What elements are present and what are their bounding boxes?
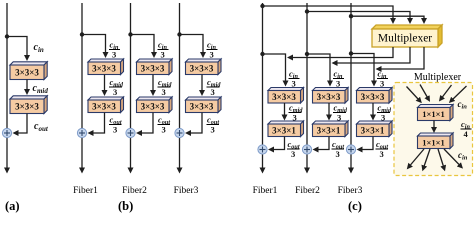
wire: mux detail conv1 to conv2 (433, 121, 435, 129)
wire: conv2 to add node (a) (18, 114, 28, 134)
wire: mux detail input arrow 3 (442, 85, 452, 98)
wire: mux detail input arrow 1 (407, 87, 419, 100)
svg-text:3: 3 (162, 87, 166, 97)
wire: fiber2 to multiplexer input (c) (307, 12, 410, 20)
wire: multiplexer output to fiber1 conv input (c) (292, 47, 393, 58)
svg-text:cout: cout (34, 121, 49, 133)
svg-text:3×3×3: 3×3×3 (15, 102, 39, 112)
label Fiber1 (c) (253, 186, 278, 196)
label c_out (a) (34, 121, 49, 133)
svg-text:(c): (c) (348, 199, 362, 213)
label Multiplexer detail title (414, 72, 462, 83)
label c_out/3 fiber2 (b) (158, 115, 171, 135)
conv box 3x3x3 C2-1 (313, 88, 349, 104)
label c_mid/3 fiber3 (b) (207, 77, 222, 97)
wire: fiber1 main line (b) (81, 3, 83, 169)
svg-text:3: 3 (291, 149, 295, 159)
label c_in/4 mux detail (461, 119, 472, 139)
wire: conv2 to add node fiber3 (c) (362, 137, 374, 150)
svg-text:cin: cin (34, 42, 44, 54)
conv box 3x3x3 B3-1 (186, 59, 222, 75)
wire: mux detail output arrow 4 (444, 149, 460, 165)
conv box 3x3x3 A1 (10, 62, 47, 80)
svg-text:Fiber2: Fiber2 (122, 186, 147, 196)
svg-text:Multiplexer: Multiplexer (414, 72, 462, 83)
wire: conv1 to conv2 fiber3 (c) (372, 103, 374, 116)
svg-text:Fiber2: Fiber2 (295, 186, 320, 196)
wire: branch to conv1 fiber2 (b) (131, 35, 155, 54)
svg-text:3×3×3: 3×3×3 (141, 64, 165, 74)
multiplexer detail dashed box (394, 83, 473, 176)
conv box 3x3x3 B3-2 (186, 97, 222, 113)
svg-text:3×3×3: 3×3×3 (190, 64, 214, 74)
wire: conv1 to conv2 fiber1 (b) (104, 75, 106, 92)
label c_mid/3 fiber2 (c) (333, 103, 348, 123)
label c_mid (a) (33, 83, 49, 95)
label (b) (118, 199, 133, 213)
label Fiber2 (b) (122, 186, 147, 196)
node: mux tap fiber3 (c) (349, 14, 353, 18)
add node + fiber1 (b) (77, 128, 86, 137)
wire: branch to conv1 fiber3 (b) (180, 35, 204, 54)
conv box 3x3x3 C1-1 (268, 88, 304, 104)
add node + fiber3 (b) (175, 128, 184, 137)
conv box 3x3x3 A2 (10, 96, 47, 114)
conv box 3x3x1 C3-2 (357, 121, 393, 137)
conv box 3x3x3 B2-1 (137, 59, 173, 75)
node: mux tap fiber1 (c) (260, 4, 264, 8)
wire: conv2 to add node fiber2 (c) (318, 137, 330, 150)
svg-text:3: 3 (161, 50, 165, 60)
conv box 3x3x3 C3-1 (357, 88, 393, 104)
svg-text:1×1×1: 1×1×1 (422, 109, 444, 119)
svg-text:Fiber1: Fiber1 (253, 186, 278, 196)
wire: mux detail input arrow 4 (453, 86, 467, 100)
svg-text:1×1×1: 1×1×1 (422, 138, 444, 148)
wire: conv2 to add node fiber2 (b) (141, 113, 153, 134)
conv box 3x3x3 B2-2 (137, 97, 173, 113)
svg-text:3×3×1: 3×3×1 (361, 126, 385, 136)
add node + fiber2 (b) (126, 128, 135, 137)
wire: conv2 to add node fiber1 (c) (273, 137, 285, 150)
svg-text:3×3×3: 3×3×3 (141, 102, 165, 112)
label c_mid/3 fiber3 (c) (377, 103, 392, 123)
label c_out/3 fiber1 (c) (287, 139, 300, 159)
label c_out/3 fiber3 (c) (376, 139, 389, 159)
label c_mid/3 fiber1 (c) (289, 103, 304, 123)
wire: mux detail output arrow 2 (424, 149, 430, 167)
wire: mux detail output arrow 3 (438, 149, 444, 167)
conv box 1x1x1 M1 (418, 105, 454, 121)
wire: conv1 to conv2 (a) (26, 80, 28, 91)
wire: branch to conv1 fiber2 (c) (307, 54, 330, 82)
wire: fiber1 to multiplexer input (c) (263, 6, 394, 19)
node: conv branch junction fiber3 (c) (349, 51, 353, 55)
label Fiber2 (c) (295, 186, 320, 196)
svg-text:3: 3 (211, 125, 215, 135)
node: conv branch junction fiber1 (c) (260, 52, 264, 56)
node: branch junction (a) (5, 34, 9, 38)
wire: fiber2 main line (b) (130, 3, 132, 169)
svg-text:3×3×3: 3×3×3 (15, 68, 39, 78)
svg-text:3: 3 (210, 50, 214, 60)
svg-text:Fiber3: Fiber3 (174, 186, 199, 196)
conv box 3x3x3 B1-1 (88, 59, 124, 75)
wire: fiber3 main line (c) (350, 3, 352, 169)
wire: conv1 to conv2 fiber1 (c) (284, 103, 286, 116)
wire: conv1 to conv2 fiber2 (c) (328, 103, 330, 116)
wire: mux detail input arrow 2 (420, 85, 428, 98)
wire: conv2 to add node fiber3 (b) (190, 113, 202, 134)
wire: multiplexer output to fiber2 conv input (c) (337, 47, 411, 63)
add node + fiber1 (c) (258, 145, 267, 154)
svg-text:3×3×3: 3×3×3 (92, 102, 116, 112)
label Fiber1 (b) (73, 186, 98, 196)
wire: conv2 to add node fiber1 (b) (93, 113, 105, 134)
node: branch junction fiber2 (b) (128, 32, 132, 36)
label c_in/3 fiber2 (c) (333, 69, 344, 89)
label c_in/3 fiber3 (b) (207, 40, 218, 60)
wire: conv1 to conv2 fiber3 (b) (201, 75, 203, 92)
svg-text:3×3×3: 3×3×3 (272, 92, 296, 102)
svg-text:3: 3 (380, 78, 384, 88)
svg-text:3: 3 (336, 78, 340, 88)
svg-text:Multiplexer: Multiplexer (378, 33, 432, 45)
conv box 3x3x1 C2-2 (313, 121, 349, 137)
svg-text:3×3×1: 3×3×1 (317, 126, 341, 136)
label c_in (a) (34, 42, 44, 54)
node: branch junction fiber3 (b) (177, 32, 181, 36)
label Fiber3 (b) (174, 186, 199, 196)
node: conv branch junction fiber2 (c) (305, 52, 309, 56)
svg-text:3: 3 (113, 87, 117, 97)
conv box 3x3x1 C1-2 (268, 121, 304, 137)
wire: branch to conv1 fiber1 (b) (82, 35, 106, 54)
label (c) (348, 199, 362, 213)
wire: multiplexer output to fiber3 conv input (c) (381, 47, 425, 69)
svg-text:Fiber3: Fiber3 (338, 186, 363, 196)
label c_in mux detail bottom (458, 150, 468, 162)
add node + fiber3 (c) (346, 145, 355, 154)
wire: mux detail output arrow 1 (410, 149, 424, 166)
multiplexer box U1 (372, 25, 442, 47)
add node + fiber2 (c) (302, 145, 311, 154)
label c_in mux detail top (458, 99, 468, 111)
conv box 1x1x1 M2 (418, 133, 454, 149)
label c_in/3 fiber2 (b) (158, 40, 169, 60)
wire: fiber main line (a) (6, 3, 8, 169)
wire: branch to conv1 fiber3 (c) (351, 54, 374, 82)
svg-text:cmid: cmid (33, 83, 49, 95)
wire: branch to conv1 (a) (7, 37, 27, 57)
label c_in/3 fiber1 (b) (109, 40, 120, 60)
svg-text:3: 3 (113, 125, 117, 135)
svg-text:3: 3 (112, 50, 116, 60)
svg-text:3×3×3: 3×3×3 (361, 92, 385, 102)
svg-text:3×3×1: 3×3×1 (272, 126, 296, 136)
svg-text:3×3×3: 3×3×3 (92, 64, 116, 74)
svg-text:3×3×3: 3×3×3 (317, 92, 341, 102)
svg-text:3: 3 (380, 149, 384, 159)
label c_out/3 fiber3 (b) (207, 115, 220, 135)
label (a) (5, 199, 20, 213)
svg-text:3: 3 (292, 78, 296, 88)
wire: fiber3 main line (b) (179, 3, 181, 169)
wire: fiber3 to multiplexer input (c) (351, 16, 424, 19)
svg-text:Fiber1: Fiber1 (73, 186, 98, 196)
svg-text:3: 3 (162, 125, 166, 135)
label c_in/3 fiber1 (c) (289, 69, 300, 89)
label c_out/3 fiber1 (b) (109, 115, 122, 135)
node: mux tap fiber2 (c) (305, 9, 309, 13)
svg-text:3: 3 (336, 149, 340, 159)
svg-text:3: 3 (211, 87, 215, 97)
node: branch junction fiber1 (b) (80, 32, 84, 36)
wire: branch to conv1 fiber1 (c) (263, 54, 286, 82)
label c_in/3 fiber3 (c) (377, 69, 388, 89)
wire: conv1 to conv2 fiber2 (b) (152, 75, 154, 92)
label c_out/3 fiber2 (c) (332, 139, 345, 159)
wire: fiber2 main line (c) (306, 3, 308, 169)
label c_mid/3 fiber2 (b) (158, 77, 173, 97)
svg-text:3×3×3: 3×3×3 (190, 102, 214, 112)
wire: fiber1 main line (c) (262, 3, 264, 169)
svg-text:(b): (b) (118, 199, 133, 213)
svg-text:(a): (a) (5, 199, 20, 213)
label c_mid/3 fiber1 (b) (109, 77, 124, 97)
add node + (a) (2, 128, 11, 137)
label Fiber3 (c) (338, 186, 363, 196)
conv box 3x3x3 B1-2 (88, 97, 124, 113)
